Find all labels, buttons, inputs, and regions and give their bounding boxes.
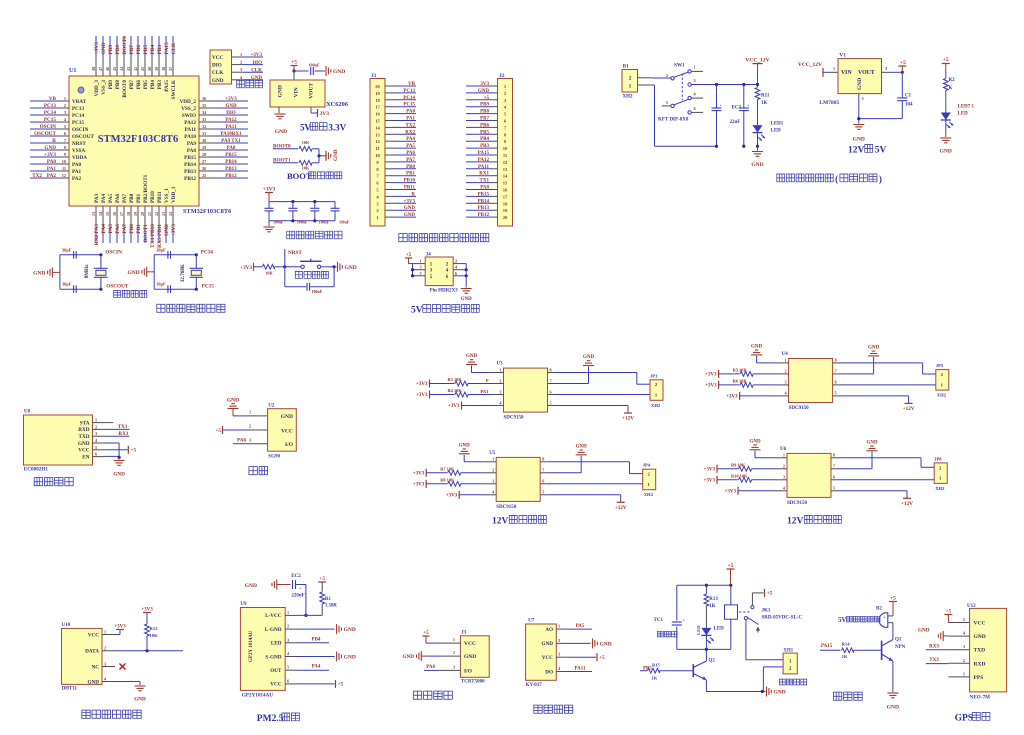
svg-text:5: 5 bbox=[833, 486, 835, 491]
svg-text:R10 10K: R10 10K bbox=[731, 473, 748, 478]
svg-text:PB4: PB4 bbox=[150, 45, 156, 55]
svg-text:PA4: PA4 bbox=[312, 665, 321, 670]
svg-text:12: 12 bbox=[375, 139, 380, 144]
svg-text:12V: 12V bbox=[848, 146, 865, 156]
svg-text:PA0: PA0 bbox=[72, 162, 82, 168]
svg-text:L-GND: L-GND bbox=[265, 627, 282, 633]
svg-text:LM7805: LM7805 bbox=[819, 100, 839, 106]
svg-text:44: 44 bbox=[119, 67, 124, 71]
svg-text:PB11: PB11 bbox=[404, 186, 416, 191]
svg-text:KY-037: KY-037 bbox=[526, 683, 543, 688]
svg-text:CLK: CLK bbox=[212, 70, 223, 76]
svg-text:3: 3 bbox=[694, 78, 696, 83]
svg-text:PC14: PC14 bbox=[201, 249, 214, 255]
svg-text:PA0: PA0 bbox=[406, 110, 415, 115]
svg-text:R: R bbox=[411, 192, 415, 197]
svg-text:5V: 5V bbox=[838, 617, 846, 624]
svg-text:+5: +5 bbox=[900, 60, 906, 66]
svg-text:PC14: PC14 bbox=[72, 113, 85, 119]
svg-text:VIN: VIN bbox=[841, 70, 852, 76]
svg-text:TX2: TX2 bbox=[406, 123, 416, 128]
svg-text:JP8: JP8 bbox=[934, 456, 942, 461]
svg-text:NPN: NPN bbox=[895, 645, 906, 650]
svg-text:PB9: PB9 bbox=[108, 80, 114, 90]
svg-text:PB1: PB1 bbox=[406, 172, 415, 177]
svg-text:PB0: PB0 bbox=[406, 165, 415, 170]
svg-text:PPS: PPS bbox=[974, 675, 984, 681]
svg-text:6: 6 bbox=[835, 380, 837, 385]
svg-text:Pin HDR2X3: Pin HDR2X3 bbox=[430, 289, 459, 294]
svg-text:35: 35 bbox=[202, 103, 206, 108]
svg-text:VCC: VCC bbox=[281, 428, 293, 434]
svg-text:GND: GND bbox=[333, 149, 339, 161]
svg-text:2: 2 bbox=[785, 369, 787, 374]
svg-text:PA11: PA11 bbox=[185, 127, 197, 133]
svg-text:XH2: XH2 bbox=[644, 492, 654, 497]
svg-text:2: 2 bbox=[453, 650, 455, 655]
svg-text:VCC: VCC bbox=[212, 55, 223, 61]
svg-text:+: + bbox=[720, 103, 723, 108]
svg-text:GND: GND bbox=[344, 655, 356, 661]
svg-text:GND: GND bbox=[134, 697, 146, 703]
svg-text:12: 12 bbox=[503, 160, 508, 165]
svg-text:11: 11 bbox=[375, 146, 380, 151]
svg-text:PA6: PA6 bbox=[115, 193, 121, 203]
svg-text:104: 104 bbox=[905, 103, 913, 108]
svg-text:VB: VB bbox=[49, 96, 57, 102]
svg-text:21: 21 bbox=[147, 212, 152, 216]
svg-text:+: + bbox=[883, 615, 886, 620]
svg-text:STM32F103C8T6: STM32F103C8T6 bbox=[183, 208, 231, 215]
svg-text:Q2: Q2 bbox=[709, 659, 716, 664]
svg-text:GND: GND bbox=[281, 414, 293, 420]
svg-text:NC: NC bbox=[92, 664, 100, 670]
svg-text:PA1: PA1 bbox=[47, 166, 57, 172]
svg-text:11: 11 bbox=[503, 153, 508, 158]
svg-text:VCC: VCC bbox=[270, 682, 281, 688]
svg-text:2: 2 bbox=[64, 103, 66, 108]
svg-text:31: 31 bbox=[202, 131, 206, 136]
svg-text:3: 3 bbox=[249, 437, 251, 442]
svg-text:GND: GND bbox=[101, 42, 107, 54]
svg-text:BOOT0: BOOT0 bbox=[122, 36, 128, 55]
svg-text:3: 3 bbox=[95, 431, 97, 436]
svg-text:R11: R11 bbox=[761, 94, 770, 99]
svg-text:12V: 12V bbox=[492, 517, 509, 527]
svg-text:GND: GND bbox=[461, 297, 473, 302]
svg-text:PB11: PB11 bbox=[157, 191, 163, 203]
svg-text:2: 2 bbox=[104, 646, 106, 651]
svg-text:8: 8 bbox=[550, 367, 552, 372]
svg-text:VSSA: VSSA bbox=[72, 148, 86, 154]
svg-text:3.3V: 3.3V bbox=[328, 122, 346, 132]
svg-text:PC15: PC15 bbox=[403, 103, 415, 108]
svg-text:SWIO: SWIO bbox=[182, 113, 196, 119]
svg-text:PC15: PC15 bbox=[44, 117, 57, 123]
svg-text:PC14: PC14 bbox=[44, 110, 57, 116]
svg-text:U3: U3 bbox=[497, 362, 504, 367]
svg-text:+12V: +12V bbox=[901, 501, 913, 507]
svg-text:+3V3: +3V3 bbox=[704, 478, 716, 483]
svg-text:OSCOUT: OSCOUT bbox=[34, 131, 56, 137]
svg-text:5: 5 bbox=[95, 445, 97, 450]
svg-text:6: 6 bbox=[455, 271, 457, 276]
svg-text:VCC_12V: VCC_12V bbox=[798, 62, 822, 68]
svg-text:3: 3 bbox=[240, 67, 242, 72]
svg-text:5: 5 bbox=[666, 100, 668, 105]
svg-text:100nF: 100nF bbox=[297, 220, 308, 224]
svg-text:I/O: I/O bbox=[464, 669, 473, 675]
svg-text:2: 2 bbox=[240, 60, 242, 65]
svg-text:): ) bbox=[879, 174, 882, 184]
svg-text:GND: GND bbox=[751, 162, 763, 168]
svg-text:U1: U1 bbox=[69, 68, 76, 74]
svg-text:B1: B1 bbox=[623, 65, 629, 70]
svg-text:EC3: EC3 bbox=[732, 106, 742, 111]
svg-text:JP3: JP3 bbox=[650, 373, 658, 378]
svg-text:2: 2 bbox=[963, 658, 965, 663]
svg-text:2: 2 bbox=[95, 424, 97, 429]
svg-text:1K: 1K bbox=[842, 654, 848, 659]
svg-text:14: 14 bbox=[98, 212, 103, 216]
svg-text:8: 8 bbox=[833, 453, 835, 458]
svg-text:3: 3 bbox=[499, 389, 501, 394]
svg-text:+5: +5 bbox=[890, 596, 896, 602]
svg-text:1: 1 bbox=[453, 637, 455, 642]
svg-text:32.768K: 32.768K bbox=[180, 264, 186, 282]
svg-text:U4: U4 bbox=[782, 352, 789, 357]
svg-text:3: 3 bbox=[885, 66, 887, 71]
svg-text:VCC: VCC bbox=[974, 621, 986, 627]
svg-text:32: 32 bbox=[202, 124, 206, 129]
svg-text:U2: U2 bbox=[268, 403, 275, 408]
svg-text:GND: GND bbox=[78, 441, 90, 447]
svg-text:PB0: PB0 bbox=[129, 224, 135, 234]
svg-text:PA6: PA6 bbox=[115, 224, 121, 234]
svg-text:PA12: PA12 bbox=[184, 120, 196, 126]
svg-text:PB4: PB4 bbox=[150, 80, 156, 90]
svg-text:PA1: PA1 bbox=[72, 169, 82, 175]
svg-text:C1: C1 bbox=[905, 94, 912, 99]
svg-text:GND: GND bbox=[478, 89, 490, 94]
svg-text:18: 18 bbox=[126, 212, 131, 216]
svg-text:19: 19 bbox=[133, 212, 138, 216]
svg-text:RX1: RX1 bbox=[479, 172, 489, 177]
svg-text:3V3: 3V3 bbox=[480, 82, 489, 87]
svg-text:SWCLK: SWCLK bbox=[171, 80, 177, 99]
svg-text:PA4: PA4 bbox=[101, 193, 107, 203]
svg-text:+5: +5 bbox=[291, 60, 297, 66]
svg-text:LED1: LED1 bbox=[771, 122, 784, 127]
svg-text:U9: U9 bbox=[240, 602, 247, 607]
svg-text:KFT DIP-8X8: KFT DIP-8X8 bbox=[658, 118, 689, 123]
svg-text:PA2: PA2 bbox=[47, 173, 57, 179]
svg-text:VOUT: VOUT bbox=[858, 70, 875, 76]
svg-text:PA8: PA8 bbox=[480, 186, 489, 191]
svg-text:GND: GND bbox=[857, 78, 863, 90]
svg-text:SG90: SG90 bbox=[268, 455, 280, 460]
svg-text:R2: R2 bbox=[949, 78, 956, 83]
svg-text:PB5: PB5 bbox=[143, 45, 149, 55]
svg-text:OUT: OUT bbox=[270, 668, 282, 674]
svg-text:1: 1 bbox=[694, 65, 696, 70]
svg-text:TXD: TXD bbox=[974, 648, 986, 654]
svg-text:23: 23 bbox=[161, 212, 166, 216]
svg-text:30pF: 30pF bbox=[62, 247, 72, 252]
svg-text:PB1: PB1 bbox=[136, 224, 142, 234]
svg-text:RX2: RX2 bbox=[405, 130, 415, 135]
svg-text:+: + bbox=[747, 103, 750, 108]
svg-text:+3V3: +3V3 bbox=[705, 383, 717, 388]
svg-text:38: 38 bbox=[161, 67, 166, 71]
svg-text:+: + bbox=[299, 586, 302, 591]
svg-text:GND: GND bbox=[940, 149, 952, 155]
svg-text:XH2: XH2 bbox=[937, 393, 947, 398]
svg-text:+5: +5 bbox=[767, 591, 773, 597]
svg-text:PA15: PA15 bbox=[821, 644, 833, 649]
svg-text:+12V: +12V bbox=[615, 505, 627, 511]
svg-text:SDC9150: SDC9150 bbox=[496, 505, 517, 510]
svg-text:+3V3: +3V3 bbox=[171, 224, 177, 237]
svg-text:PC14: PC14 bbox=[403, 96, 415, 101]
svg-text:GND: GND bbox=[583, 355, 595, 360]
svg-text:2: 2 bbox=[287, 624, 289, 629]
svg-text:RX2 PA3: RX2 PA3 bbox=[94, 224, 100, 246]
svg-text:TX2: TX2 bbox=[32, 173, 42, 179]
svg-text:10K: 10K bbox=[302, 166, 310, 171]
svg-text:V1: V1 bbox=[839, 53, 846, 59]
svg-text:10: 10 bbox=[503, 146, 508, 151]
svg-text:PB3: PB3 bbox=[157, 80, 163, 90]
svg-text:13: 13 bbox=[91, 212, 96, 216]
svg-text:PA10: PA10 bbox=[184, 134, 196, 140]
svg-text:RXD: RXD bbox=[78, 427, 89, 433]
svg-text:BOOT1: BOOT1 bbox=[143, 224, 149, 243]
svg-text:+3V3: +3V3 bbox=[413, 482, 425, 487]
svg-text:JP4: JP4 bbox=[643, 463, 651, 468]
svg-text:+3V3: +3V3 bbox=[141, 608, 153, 613]
svg-text:DIO: DIO bbox=[212, 63, 222, 69]
svg-text:5: 5 bbox=[963, 617, 965, 622]
svg-text:GND: GND bbox=[87, 679, 99, 685]
svg-text:100nF: 100nF bbox=[308, 63, 320, 68]
svg-text:PB8: PB8 bbox=[115, 45, 121, 55]
svg-text:1K: 1K bbox=[709, 604, 716, 609]
svg-text:BOOT: BOOT bbox=[287, 171, 312, 181]
svg-text:(: ( bbox=[835, 174, 838, 184]
svg-text:19: 19 bbox=[375, 91, 380, 96]
svg-text:22: 22 bbox=[154, 212, 159, 216]
svg-text:11: 11 bbox=[62, 166, 66, 171]
svg-text:47: 47 bbox=[98, 67, 103, 71]
svg-text:GND: GND bbox=[113, 472, 125, 478]
svg-text:VCC: VCC bbox=[78, 448, 89, 454]
svg-text:30pF: 30pF bbox=[156, 247, 166, 252]
svg-text:AO: AO bbox=[545, 627, 553, 633]
svg-text:+3V3: +3V3 bbox=[416, 393, 428, 398]
svg-text:GND: GND bbox=[751, 344, 763, 349]
svg-text:STM32F103C8T6: STM32F103C8T6 bbox=[98, 134, 179, 145]
svg-text:PB7: PB7 bbox=[129, 45, 135, 55]
svg-text:10K: 10K bbox=[150, 633, 159, 638]
svg-text:TX1: TX1 bbox=[118, 424, 128, 430]
svg-text:PA6: PA6 bbox=[237, 437, 247, 443]
svg-text:GND: GND bbox=[33, 270, 45, 276]
svg-text:PB15: PB15 bbox=[184, 155, 196, 161]
svg-text:R8 10K: R8 10K bbox=[440, 477, 455, 482]
svg-text:VBAT: VBAT bbox=[72, 99, 87, 105]
svg-text:VCC: VCC bbox=[542, 655, 553, 661]
svg-text:PC13: PC13 bbox=[403, 89, 415, 94]
svg-text:30pF: 30pF bbox=[62, 282, 72, 287]
svg-text:GND: GND bbox=[164, 224, 170, 236]
svg-text:OSCIN: OSCIN bbox=[72, 127, 89, 133]
svg-text:DIO: DIO bbox=[226, 111, 236, 116]
svg-text:3: 3 bbox=[453, 665, 455, 670]
svg-text:PA15: PA15 bbox=[164, 42, 170, 54]
svg-text:16: 16 bbox=[375, 112, 380, 117]
svg-text:GND: GND bbox=[541, 641, 553, 647]
svg-text:PB4: PB4 bbox=[480, 137, 489, 142]
svg-text:3: 3 bbox=[558, 652, 560, 657]
svg-text:5: 5 bbox=[420, 271, 422, 276]
svg-text:+5: +5 bbox=[215, 428, 221, 434]
svg-text:VDD_3: VDD_3 bbox=[94, 80, 100, 97]
svg-text:GND: GND bbox=[774, 690, 786, 696]
svg-text:+3V3: +3V3 bbox=[705, 372, 717, 377]
svg-text:12V: 12V bbox=[787, 517, 804, 527]
svg-text:1: 1 bbox=[785, 358, 787, 363]
svg-text:1K: 1K bbox=[652, 676, 658, 681]
svg-text:GND: GND bbox=[576, 444, 588, 449]
svg-text:GND: GND bbox=[600, 641, 612, 647]
svg-text:19: 19 bbox=[503, 208, 508, 213]
svg-text:TXD: TXD bbox=[79, 434, 90, 440]
svg-text:LED: LED bbox=[714, 627, 725, 632]
svg-text:10K: 10K bbox=[265, 271, 273, 276]
svg-text:PA1: PA1 bbox=[480, 389, 489, 394]
svg-text:2: 2 bbox=[499, 378, 501, 383]
svg-text:U10: U10 bbox=[62, 623, 71, 628]
svg-text:PA8: PA8 bbox=[227, 146, 236, 151]
svg-text:TX3: TX3 bbox=[929, 658, 939, 663]
svg-text:7: 7 bbox=[833, 464, 835, 469]
svg-text:SDC9150: SDC9150 bbox=[787, 501, 808, 506]
svg-text:XH2: XH2 bbox=[651, 403, 661, 408]
svg-text:RX3 PB11: RX3 PB11 bbox=[157, 224, 163, 248]
svg-text:R4 10K: R4 10K bbox=[448, 388, 463, 393]
svg-text:15: 15 bbox=[503, 181, 508, 186]
svg-text:GND: GND bbox=[868, 345, 880, 350]
svg-text:29: 29 bbox=[202, 145, 206, 150]
svg-text:+5: +5 bbox=[728, 563, 734, 569]
svg-text:GND: GND bbox=[404, 213, 416, 218]
svg-text:PB10: PB10 bbox=[404, 179, 416, 184]
svg-text:+3V3: +3V3 bbox=[413, 471, 425, 476]
svg-text:R15: R15 bbox=[652, 662, 661, 667]
svg-text:PA9 TX1: PA9 TX1 bbox=[221, 139, 241, 144]
svg-text:+3V3: +3V3 bbox=[404, 199, 416, 204]
svg-text:PA15: PA15 bbox=[478, 151, 490, 156]
svg-text:GP2Y1014AU: GP2Y1014AU bbox=[242, 693, 274, 699]
svg-text:+3V3: +3V3 bbox=[448, 404, 460, 409]
svg-text:GND: GND bbox=[466, 354, 478, 359]
svg-text:10: 10 bbox=[62, 159, 66, 164]
svg-text:8: 8 bbox=[835, 358, 837, 363]
svg-text:+3V3: +3V3 bbox=[251, 53, 263, 58]
svg-text:10: 10 bbox=[375, 153, 380, 158]
svg-text:PB6: PB6 bbox=[136, 45, 142, 55]
svg-text:+5: +5 bbox=[946, 608, 952, 614]
svg-text:18: 18 bbox=[375, 98, 380, 103]
svg-text:PA11: PA11 bbox=[478, 165, 490, 170]
svg-text:2: 2 bbox=[455, 259, 457, 264]
svg-text:NRST: NRST bbox=[72, 141, 86, 147]
svg-text:PC13: PC13 bbox=[44, 103, 57, 109]
svg-text:100nF: 100nF bbox=[339, 220, 350, 224]
svg-text:GND: GND bbox=[464, 654, 476, 660]
svg-text:5: 5 bbox=[550, 400, 552, 405]
svg-text:VDD_1: VDD_1 bbox=[171, 186, 177, 203]
svg-text:+3V3: +3V3 bbox=[44, 152, 56, 158]
svg-text:DIO: DIO bbox=[253, 61, 263, 66]
svg-text:GND: GND bbox=[227, 398, 239, 404]
svg-text:1: 1 bbox=[963, 671, 965, 676]
svg-text:PA8: PA8 bbox=[187, 148, 197, 154]
svg-text:OSCIN: OSCIN bbox=[40, 124, 57, 130]
svg-text:JP5: JP5 bbox=[936, 363, 944, 368]
svg-text:+3V3: +3V3 bbox=[446, 493, 458, 498]
svg-text:1: 1 bbox=[783, 453, 785, 458]
svg-text:1K: 1K bbox=[761, 101, 768, 106]
svg-text:PB5: PB5 bbox=[143, 80, 149, 90]
svg-text:PB3: PB3 bbox=[157, 45, 163, 55]
svg-text:DO: DO bbox=[545, 669, 553, 675]
svg-text:LED7 1: LED7 1 bbox=[958, 105, 975, 110]
svg-text:100nF: 100nF bbox=[319, 220, 330, 224]
svg-text:PA7: PA7 bbox=[406, 158, 415, 163]
svg-text:PA12: PA12 bbox=[478, 158, 490, 163]
svg-text:5V: 5V bbox=[875, 146, 887, 156]
svg-text:U7: U7 bbox=[528, 619, 535, 624]
svg-text:+5: +5 bbox=[599, 655, 605, 661]
svg-text:+5: +5 bbox=[406, 252, 412, 258]
svg-text:XC6206: XC6206 bbox=[326, 101, 349, 108]
svg-text:17: 17 bbox=[503, 194, 508, 199]
svg-text:RX1: RX1 bbox=[118, 431, 128, 437]
svg-text:18: 18 bbox=[503, 201, 508, 206]
svg-text:3: 3 bbox=[287, 637, 289, 642]
svg-text:PB6: PB6 bbox=[480, 123, 489, 128]
svg-text:5: 5 bbox=[542, 490, 544, 495]
svg-text:VSS_1: VSS_1 bbox=[164, 188, 170, 203]
svg-text:16: 16 bbox=[503, 188, 508, 193]
svg-text:40: 40 bbox=[147, 67, 152, 71]
svg-text:1: 1 bbox=[420, 259, 422, 264]
svg-text:20: 20 bbox=[375, 84, 380, 89]
svg-text:GND: GND bbox=[127, 270, 139, 276]
svg-text:PB15: PB15 bbox=[225, 153, 237, 158]
svg-text:S-GND: S-GND bbox=[265, 654, 281, 660]
svg-text:5V: 5V bbox=[300, 122, 312, 132]
svg-text:30pF: 30pF bbox=[156, 282, 166, 287]
svg-text:GND: GND bbox=[974, 634, 986, 640]
svg-text:LED: LED bbox=[271, 641, 282, 647]
svg-text:GND: GND bbox=[887, 705, 899, 711]
svg-text:3: 3 bbox=[963, 644, 965, 649]
svg-text:+12V: +12V bbox=[622, 416, 634, 422]
svg-text:43: 43 bbox=[126, 67, 131, 71]
